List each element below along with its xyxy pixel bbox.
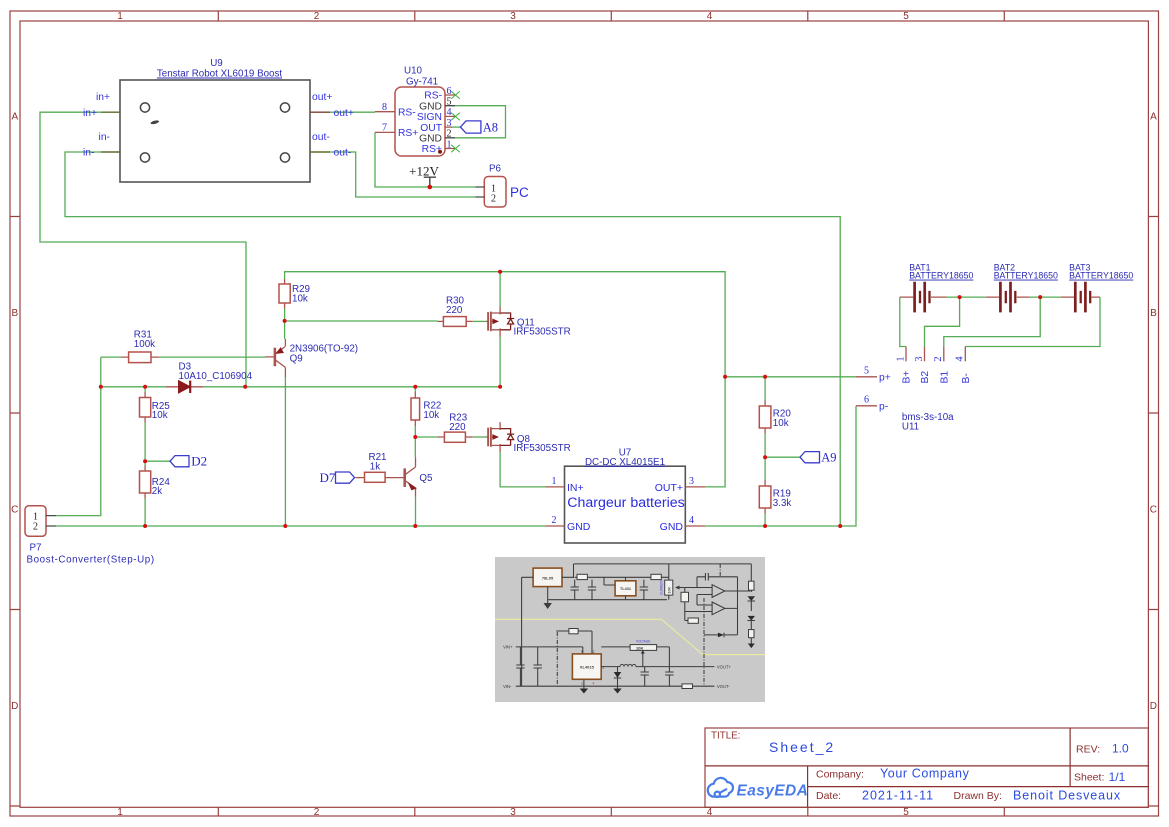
svg-text:IN+: IN+ (567, 482, 584, 494)
inset dashdot verticals (703, 598, 705, 686)
wire BAT1 plus elbow to bms pin1 (900, 297, 906, 346)
net flag A8 (452, 120, 498, 134)
svg-text:Boost-Converter(Step-Up): Boost-Converter(Step-Up) (27, 555, 155, 566)
svg-text:D: D (11, 701, 18, 712)
wire R20 top / bottom to A9 and R19 (764, 377, 766, 480)
svg-text:out+: out+ (312, 92, 332, 103)
svg-text:10A10_C106904: 10A10_C106904 (179, 371, 253, 382)
svg-text:VIN-: VIN- (503, 684, 512, 689)
svg-text:B: B (11, 308, 18, 319)
component U10 Gy-741 (375, 66, 460, 157)
resistor R31 100k (122, 330, 160, 363)
battery BAT2 BATTERY18650 (986, 263, 1058, 313)
svg-text:CURRENT: CURRENT (660, 579, 664, 595)
wire Q11 source down to D3 node (499, 337, 501, 387)
svg-text:out+: out+ (334, 108, 354, 119)
wire A9 flag stub (765, 456, 800, 458)
svg-text:OUT: OUT (420, 123, 442, 134)
svg-text:OUT+: OUT+ (655, 482, 683, 494)
svg-text:GND: GND (419, 134, 442, 145)
inset 10K current pot (665, 580, 673, 595)
svg-text:3.3k: 3.3k (773, 498, 792, 509)
inset XL4015 box (572, 654, 601, 679)
component U9 Tenstar Robot XL6019 Boost (83, 58, 354, 182)
resistor R22 10k (411, 392, 441, 426)
inset ground under 78L05 (547, 600, 549, 603)
svg-text:D7: D7 (320, 470, 336, 485)
connector P6 (475, 164, 529, 208)
svg-text:10k: 10k (152, 410, 168, 421)
svg-text:5: 5 (903, 11, 909, 22)
svg-text:8: 8 (382, 102, 387, 113)
wire Q11 drain up to top rail (499, 272, 501, 307)
mosfet Q8 IRF5305STR (486, 422, 570, 454)
no-connect X pin6 (451, 91, 460, 99)
svg-text:Benoit Desveaux: Benoit Desveaux (1013, 789, 1121, 803)
svg-text:Q9: Q9 (290, 353, 303, 364)
svg-text:p-: p- (879, 402, 888, 413)
svg-text:10k: 10k (773, 418, 789, 429)
no-connect X pin1 (451, 145, 460, 153)
svg-text:1: 1 (117, 11, 123, 22)
wire out+ net U9 to U10 pin8 (330, 111, 375, 113)
wire R19 bottom to bus (764, 514, 766, 527)
inset left verticals and caps (516, 577, 542, 686)
svg-text:PC: PC (510, 185, 529, 200)
resistor R21 1k (355, 452, 395, 482)
svg-text:2: 2 (933, 357, 944, 362)
diode D3 10A10_C106904 (166, 361, 253, 393)
svg-text:2: 2 (314, 11, 320, 22)
wire battery chain BAT1-BAT2 (947, 296, 986, 298)
transistor Q9 2N3906 PNP (266, 339, 359, 526)
inset diode and caps under VOUT rail (617, 667, 619, 672)
transistor Q5 NPN (396, 457, 433, 496)
inset caps (571, 580, 579, 600)
wire R24 net (144, 461, 146, 526)
svg-text:p+: p+ (879, 372, 891, 383)
svg-text:BATTERY18650: BATTERY18650 (1069, 271, 1133, 281)
svg-text:6: 6 (447, 86, 452, 97)
svg-text:SIGN: SIGN (417, 112, 442, 123)
svg-text:RS+: RS+ (422, 144, 442, 155)
svg-text:A9: A9 (821, 451, 836, 465)
svg-text:Gy-741: Gy-741 (406, 77, 438, 88)
svg-text:RS-: RS- (424, 91, 442, 102)
wire in- net from U9.in- long bus to battery B+ column (65, 152, 840, 526)
svg-text:4: 4 (593, 682, 595, 686)
wire GND bottom bus right to p- pin (705, 406, 856, 526)
wire Q8 source down to U7 pin1 (500, 452, 545, 487)
svg-text:D: D (1150, 701, 1157, 712)
wire R23 to Q8 gate (473, 436, 487, 438)
inset small resistors near opamps (681, 592, 689, 602)
svg-text:B2: B2 (920, 371, 931, 384)
resistor R24 2k (140, 466, 171, 499)
svg-text:XL4015: XL4015 (580, 665, 595, 670)
svg-text:GND: GND (419, 101, 442, 112)
wire BAT3 minus elbow to bms pin4 (965, 297, 1100, 346)
svg-text:A: A (11, 112, 18, 123)
wire node B1 elbow to bms pin2 (944, 297, 1040, 346)
EasyEDA logo (708, 778, 733, 797)
wire D2 flag stub (145, 460, 170, 462)
svg-text:Company:: Company: (816, 769, 864, 781)
pin1 marker dot (438, 150, 442, 154)
inset opamp comparators (712, 585, 725, 615)
svg-text:2: 2 (552, 515, 557, 526)
inset 78L05 regulator box (533, 568, 562, 587)
svg-text:Chargeur batteries: Chargeur batteries (567, 495, 685, 511)
svg-text:2: 2 (447, 129, 452, 140)
svg-text:VOLTAGE: VOLTAGE (636, 640, 651, 644)
wire p+ net from OUT+ node (725, 376, 856, 378)
svg-text:2: 2 (593, 650, 595, 654)
wire R30 to Q11 gate (473, 320, 487, 322)
svg-text:3: 3 (602, 665, 604, 669)
wire battery chain BAT2-BAT3 (1030, 296, 1061, 298)
inset picture of charger schematic (495, 557, 765, 702)
svg-text:C: C (1150, 505, 1157, 516)
svg-text:in-: in- (99, 132, 110, 143)
svg-text:78L05: 78L05 (542, 576, 554, 581)
bms pins p+ p- (856, 365, 954, 432)
wire Q5 emitter to bus (415, 497, 417, 527)
wire R22 top to D3 node (414, 387, 416, 392)
resistor R19 3.3k (759, 480, 791, 514)
svg-text:1/1: 1/1 (1109, 770, 1126, 784)
svg-text:5: 5 (903, 807, 909, 818)
svg-text:D2: D2 (191, 453, 207, 468)
svg-text:10K: 10K (668, 587, 672, 594)
svg-text:4: 4 (707, 807, 713, 818)
wire node B2 elbow to bms pin3 (925, 297, 960, 346)
svg-text:10k: 10k (292, 293, 308, 304)
svg-text:3: 3 (510, 807, 516, 818)
svg-text:1: 1 (895, 357, 906, 362)
svg-text:2: 2 (33, 522, 38, 533)
svg-text:out-: out- (334, 148, 352, 159)
svg-text:IRF5305STR: IRF5305STR (514, 443, 571, 454)
svg-text:Sheet_2: Sheet_2 (769, 739, 835, 755)
svg-text:U10: U10 (404, 66, 423, 77)
svg-text:Your Company: Your Company (880, 767, 970, 781)
svg-text:2k: 2k (152, 486, 162, 497)
wire U10 pin5 to pin2 loop (455, 106, 506, 138)
svg-text:B: B (1150, 308, 1157, 319)
svg-text:220: 220 (449, 422, 466, 433)
svg-text:out-: out- (312, 132, 330, 143)
connector P7 (25, 506, 155, 566)
svg-text:in-: in- (83, 148, 94, 159)
wire R29 top rail to OUT+ node down to U7 pin3 (285, 272, 725, 487)
svg-text:5: 5 (864, 365, 869, 376)
svg-text:BATTERY18650: BATTERY18650 (909, 271, 973, 281)
inset sense resistor on VIN- rail (682, 684, 693, 689)
title block (705, 728, 1148, 807)
svg-text:Sheet:: Sheet: (1074, 771, 1104, 783)
wire R31 right to Q9 base (159, 356, 266, 358)
svg-text:7: 7 (382, 123, 387, 134)
inset resistor boxes top (577, 574, 587, 579)
svg-text:1: 1 (117, 807, 123, 818)
inset TL431 box (615, 581, 636, 596)
inset VOLTAGE pot (630, 645, 657, 651)
net flag D2 (170, 453, 207, 468)
svg-text:2: 2 (314, 807, 320, 818)
inset feedback resistor top (556, 631, 592, 654)
svg-text:3: 3 (689, 476, 694, 487)
wire R31 left and vertical to P7 pin1 (56, 357, 122, 515)
svg-text:10K: 10K (636, 646, 643, 651)
svg-text:DC-DC XL4015E1: DC-DC XL4015E1 (585, 457, 665, 468)
bms battery-side pins B+ B2 B1 B- (895, 347, 972, 384)
svg-text:220: 220 (446, 305, 463, 316)
svg-text:6: 6 (864, 395, 869, 406)
inset right leds chain (750, 581, 752, 592)
svg-text:Q5: Q5 (419, 473, 433, 484)
inset yellow highlight line (495, 619, 765, 654)
svg-text:1: 1 (447, 139, 452, 150)
svg-text:5: 5 (447, 97, 452, 108)
svg-text:2021-11-11: 2021-11-11 (862, 789, 934, 803)
wire U10 pin7 to +12V and P6 pin1 (375, 132, 475, 187)
net flag A9 (800, 451, 836, 465)
svg-text:B-: B- (961, 373, 972, 383)
svg-text:Tenstar Robot XL6019 Boost: Tenstar Robot XL6019 Boost (157, 69, 283, 80)
svg-text:1k: 1k (370, 461, 380, 472)
svg-text:VOUT+: VOUT+ (717, 665, 732, 670)
resistor R25 10k (140, 392, 171, 423)
svg-text:Date:: Date: (816, 790, 841, 802)
svg-text:3: 3 (510, 11, 516, 22)
svg-text:BATTERY18650: BATTERY18650 (994, 271, 1058, 281)
svg-text:3: 3 (447, 118, 452, 129)
wire in+ net from U9.in+ to D3 node (40, 112, 246, 387)
no-connect X pin4 (451, 113, 460, 121)
svg-text:1: 1 (552, 476, 557, 487)
svg-text:P6: P6 (489, 164, 502, 175)
resistor R29 10k (279, 279, 310, 309)
svg-text:4: 4 (447, 107, 452, 118)
wire GND bottom bus left (56, 525, 545, 527)
resistor R30 220 (437, 296, 473, 327)
svg-text:1.0: 1.0 (1112, 742, 1129, 756)
wire D3 horizontal net (101, 386, 500, 388)
inset top cap near opamp (697, 573, 738, 588)
svg-text:2: 2 (491, 193, 496, 204)
power flag +12V (409, 164, 439, 186)
svg-text:TITLE:: TITLE: (711, 731, 740, 742)
svg-text:EasyEDA: EasyEDA (737, 782, 809, 799)
svg-text:VOUT-: VOUT- (717, 684, 730, 689)
svg-text:GND: GND (567, 521, 591, 533)
inset feedback diode (704, 608, 738, 635)
wire R22 bottom to R23 and Q5 collector (415, 426, 437, 457)
inset top rail (574, 564, 752, 581)
svg-text:IRF5305STR: IRF5305STR (514, 327, 571, 338)
battery BAT1 BATTERY18650 (900, 263, 974, 313)
battery BAT3 BATTERY18650 (1061, 263, 1134, 313)
svg-text:100k: 100k (134, 339, 155, 350)
svg-text:U11: U11 (902, 421, 919, 432)
svg-text:B+: B+ (902, 371, 913, 384)
svg-text:B1: B1 (939, 371, 950, 384)
inset opamp outputs (725, 577, 750, 609)
inset mid rail (548, 577, 667, 599)
svg-text:A: A (1150, 112, 1157, 123)
chip U7 DC-DC XL4015E1 (545, 447, 705, 543)
svg-text:P7: P7 (30, 543, 42, 554)
svg-text:A8: A8 (483, 120, 498, 134)
svg-text:4: 4 (707, 11, 713, 22)
svg-text:Drawn By:: Drawn By: (954, 790, 1002, 802)
svg-text:GND: GND (660, 521, 684, 533)
resistor R20 10k (759, 401, 791, 434)
resistor R23 220 (438, 413, 473, 443)
svg-text:RS-: RS- (398, 108, 416, 119)
wire R29 bottom to Q9 emitter and to R30 (285, 309, 438, 340)
svg-text:RS+: RS+ (398, 128, 418, 139)
svg-text:1: 1 (581, 682, 583, 686)
svg-text:U9: U9 (210, 58, 223, 69)
svg-text:+12V: +12V (409, 164, 439, 179)
svg-text:4: 4 (955, 357, 966, 362)
svg-text:in+: in+ (96, 92, 110, 103)
svg-text:3: 3 (914, 357, 925, 362)
svg-text:in+: in+ (83, 108, 97, 119)
svg-text:4: 4 (689, 515, 694, 526)
svg-text:5: 5 (581, 650, 583, 654)
svg-text:REV:: REV: (1076, 744, 1100, 756)
svg-text:10k: 10k (423, 410, 439, 421)
net flag D7 (320, 470, 355, 485)
wire out- net U9 to P6 pin2 (330, 152, 475, 197)
inset VOUT+ rail with inductor (601, 666, 714, 668)
svg-text:VIN+: VIN+ (503, 644, 513, 649)
mosfet Q11 IRF5305STR (486, 307, 570, 338)
svg-text:C: C (11, 505, 18, 516)
svg-text:TL431: TL431 (620, 587, 631, 591)
wire R25 net (144, 387, 146, 461)
